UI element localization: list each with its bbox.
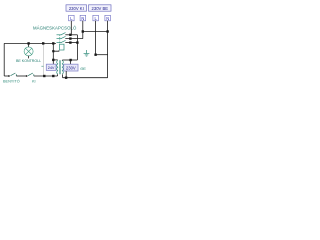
svg-text:N: N [81,16,84,21]
wire N2 vertical [107,21,109,78]
wire coil feed vertical x53.3 [52,43,54,60]
svg-text:KI: KI [32,80,36,84]
junction dot [94,54,96,56]
wire top bus y31.5 N1 to N2 [83,31,108,33]
box 24V [46,64,56,70]
wire L1 vertical [70,21,72,35]
terminal N (KI) [80,15,86,20]
junction dot row3/x77.4 [76,41,78,43]
junction dot [43,75,45,77]
svg-text:230V KI: 230V KI [69,6,84,11]
junction dot [82,30,84,32]
svg-text:ΘΕ: ΘΕ [80,66,86,71]
wire L2 vertical [95,21,97,55]
contactor contact 3 [57,40,78,42]
wire bottom right y76.2 [63,77,108,79]
wire N1 vertical [82,21,84,39]
contactor terminal dots [69,34,71,36]
wire 24V riser (faint) [43,43,45,76]
box 230V [64,64,78,71]
svg-text:230V: 230V [66,66,76,71]
terminal N (BE) [105,15,111,20]
switch KI blade [26,75,28,77]
contactor coil [60,44,65,50]
wire winding bottom right lead [62,74,64,77]
lamp BE KONTROLL [24,43,33,58]
svg-text:MÁGNESKAPCSOLÓ: MÁGNESKAPCSOLÓ [33,26,77,31]
svg-text:BE KONTROLL: BE KONTROLL [16,59,41,63]
wire transformer right top y60 [62,59,77,61]
AC mark [41,65,43,67]
wire left vertical [3,43,5,76]
switch BENYITO blade [8,75,10,77]
wire winding bottom left lead [57,74,59,76]
wire 230V box bottom riser [65,71,67,78]
connector box 230V BE [89,5,112,11]
wire 230V box top riser [70,60,72,64]
junction dot lamp [27,42,29,44]
wire 24V box top riser [52,60,54,64]
wire winding top left horizontal [53,59,57,61]
wire lamp feed horizontal y42.7 [4,42,56,44]
terminal L (KI) [69,15,75,20]
junction dot [106,30,108,32]
wire y54.7 L2 to N2 [96,54,108,56]
junction dot [52,59,54,61]
junction dot coil feed [52,42,54,44]
wire coil bottom lead [53,49,59,52]
svg-text:230V BE: 230V BE [92,6,109,11]
wire winding top right lead [61,59,63,62]
transformer T1 [57,60,64,74]
wire bottom left y76 with switches [4,75,9,77]
junction dot 230V box top [69,59,71,61]
contactor contact 1 [57,33,78,35]
svg-text:N: N [106,16,109,21]
terminal L (BE) [93,15,99,20]
contactor mechanical link (dashed) [59,35,61,44]
svg-text:BENYITÓ: BENYITÓ [3,79,20,84]
wire x77.4 vertical (row1 down to transformer top) [76,35,78,60]
svg-text:24V: 24V [48,66,55,70]
contactor contact 2 [57,36,83,38]
connector box 230V KI [66,5,87,11]
junction dot [65,77,67,79]
junction dot [52,50,54,52]
junction dot [52,75,54,77]
ground [84,50,90,56]
